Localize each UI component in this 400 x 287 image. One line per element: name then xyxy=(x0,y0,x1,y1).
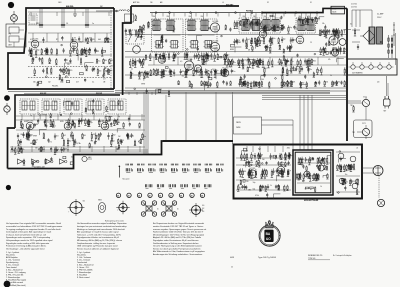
svg-text:302: 302 xyxy=(202,208,204,210)
svg-text:8k2: 8k2 xyxy=(200,77,203,79)
svg-text:MF-trimning: 460 kc (AM) og 10: MF-trimning: 460 kc (AM) og 10,7 Mc (FM)… xyxy=(77,239,123,242)
svg-text:100: 100 xyxy=(117,122,120,124)
svg-text:560: 560 xyxy=(261,79,264,81)
svg-text:5p: 5p xyxy=(279,46,281,48)
svg-text:560: 560 xyxy=(182,75,185,77)
svg-text:Messbedingungen: 220 V Netz, 5: Messbedingungen: 220 V Netz, 50 Hz, kein… xyxy=(153,233,205,236)
svg-text:220: 220 xyxy=(246,181,249,183)
svg-text:30: 30 xyxy=(157,209,159,211)
svg-text:8k2: 8k2 xyxy=(80,42,83,44)
svg-text:Aenderungen der Schaltung vorb: Aenderungen der Schaltung vorbehalten - … xyxy=(153,253,202,256)
svg-text:TR1: TR1 xyxy=(350,105,353,107)
svg-text:EF89: EF89 xyxy=(141,83,145,85)
svg-text:10,7Mc: 10,7Mc xyxy=(76,143,81,145)
svg-text:260: 260 xyxy=(167,16,170,18)
svg-text:304: 304 xyxy=(202,211,204,213)
svg-text:2M2: 2M2 xyxy=(313,60,316,62)
svg-text:54: 54 xyxy=(231,267,233,269)
svg-text:Roehrenvoltmeter 1100 Ohm/Volt: Roehrenvoltmeter 1100 Ohm/Volt. Toleranz… xyxy=(153,231,204,234)
svg-text:260: 260 xyxy=(201,16,204,18)
svg-text:00: 00 xyxy=(201,196,203,198)
svg-text:C2 4700: C2 4700 xyxy=(351,6,357,8)
svg-text:25: 25 xyxy=(111,66,113,68)
svg-text:50p: 50p xyxy=(253,182,256,184)
svg-text:2M2: 2M2 xyxy=(107,121,110,123)
svg-text:5p: 5p xyxy=(305,189,307,191)
svg-text:3n3: 3n3 xyxy=(240,171,243,173)
svg-text:5p: 5p xyxy=(289,170,291,172)
svg-text:10n: 10n xyxy=(345,174,348,176)
svg-text:4038: 4038 xyxy=(230,257,234,259)
svg-text:9. Nast normal: 9. Nast normal xyxy=(77,276,90,279)
svg-text:25: 25 xyxy=(71,157,73,159)
svg-text:1k: 1k xyxy=(132,136,134,138)
svg-text:EF89: EF89 xyxy=(60,121,64,123)
svg-text:ECC85: ECC85 xyxy=(298,35,304,37)
svg-text:0,1: 0,1 xyxy=(245,157,247,159)
svg-text:25u: 25u xyxy=(343,30,346,32)
svg-text:1n: 1n xyxy=(92,23,94,25)
svg-text:Ved reparation: Kun originale: Ved reparation: Kun originale B&O reserv… xyxy=(6,222,62,225)
svg-text:3n3: 3n3 xyxy=(54,101,57,103)
svg-text:260: 260 xyxy=(153,16,156,18)
svg-text:8k2: 8k2 xyxy=(63,135,66,137)
svg-text:8k2: 8k2 xyxy=(112,140,115,142)
svg-text:L4: L4 xyxy=(222,2,224,4)
svg-text:8k2: 8k2 xyxy=(208,71,211,73)
svg-text:0,1: 0,1 xyxy=(265,68,267,70)
svg-text:Alle spaendinger er maalt til: Alle spaendinger er maalt til chassis ud… xyxy=(77,231,119,234)
svg-text:OBS: elektrolytter og HT-kreds: OBS: elektrolytter og HT-kredse kan give… xyxy=(77,245,117,248)
svg-text:0,5: 0,5 xyxy=(30,39,32,41)
svg-text:5p: 5p xyxy=(132,73,134,75)
svg-text:350: 350 xyxy=(83,201,86,203)
svg-text:ECC85: ECC85 xyxy=(33,39,39,41)
svg-text:Tolerancer +/- 10% ved 220 V n: Tolerancer +/- 10% ved 220 V netspaendin… xyxy=(77,233,121,236)
svg-text:50p: 50p xyxy=(90,122,93,124)
svg-text:Service maa kun udfoeres af ud: Service maa kun udfoeres af uddannet fag… xyxy=(77,247,118,250)
svg-text:00: 00 xyxy=(117,196,119,198)
svg-text:R9: R9 xyxy=(69,126,71,128)
svg-text:3n3: 3n3 xyxy=(32,49,35,51)
svg-text:8k2: 8k2 xyxy=(239,187,242,189)
svg-text:0,1: 0,1 xyxy=(295,27,297,29)
svg-text:OC72: OC72 xyxy=(363,96,367,98)
svg-text:2k2: 2k2 xyxy=(118,136,121,138)
svg-text:25u: 25u xyxy=(233,71,236,73)
svg-text:220: 220 xyxy=(53,125,56,127)
svg-text:C1 4700: C1 4700 xyxy=(351,4,357,6)
svg-text:5603: 5603 xyxy=(36,23,40,25)
svg-text:47k: 47k xyxy=(338,82,341,84)
svg-text:EM84: EM84 xyxy=(98,200,102,202)
svg-text:300: 300 xyxy=(202,205,204,207)
svg-text:werden. Ersatzteile: FXD 507: werden. Ersatzteile: FXD 507 TB5 31 mit … xyxy=(153,225,204,228)
svg-text:5p: 5p xyxy=(66,60,68,62)
svg-text:AM-MF: AM-MF xyxy=(40,92,47,95)
svg-text:1k: 1k xyxy=(330,75,332,77)
svg-text:00: 00 xyxy=(170,196,172,198)
svg-text:2M2: 2M2 xyxy=(199,75,202,77)
svg-text:6k8: 6k8 xyxy=(98,39,101,41)
svg-text:220: 220 xyxy=(197,72,200,74)
svg-text:ECC85: ECC85 xyxy=(28,121,34,123)
svg-text:Ved maalinger - sluk altid for: Ved maalinger - sluk altid for apparatet… xyxy=(6,247,45,250)
svg-text:0,1 AMP: 0,1 AMP xyxy=(377,13,384,16)
svg-text:00: 00 xyxy=(180,196,182,198)
svg-text:Drehkondensator in Stellung ma: Drehkondensator in Stellung max. Kapazit… xyxy=(153,242,198,245)
svg-text:10n: 10n xyxy=(49,60,52,62)
svg-text:0,5: 0,5 xyxy=(180,61,182,63)
svg-text:AM-DEL: AM-DEL xyxy=(66,5,75,8)
svg-text:Ved forsendelse anvendes origi: Ved forsendelse anvendes original emball… xyxy=(77,222,127,225)
svg-text:47k: 47k xyxy=(328,59,331,61)
svg-text:50p: 50p xyxy=(289,27,292,29)
svg-text:Voltspaendinger maalet fra 135: Voltspaendinger maalet fra 1352 signallo… xyxy=(6,239,53,242)
svg-text:8k2: 8k2 xyxy=(69,141,72,143)
svg-text:AM-NET: AM-NET xyxy=(226,3,234,6)
svg-text:3n3: 3n3 xyxy=(56,136,59,138)
svg-text:680: 680 xyxy=(104,60,107,62)
svg-text:Bei Reparaturen duerfen nur Or: Bei Reparaturen duerfen nur Original-Ers… xyxy=(153,222,204,225)
svg-text:10n: 10n xyxy=(143,136,146,138)
svg-text:1k: 1k xyxy=(346,181,348,183)
svg-text:10n: 10n xyxy=(110,126,113,128)
svg-text:460kc: 460kc xyxy=(30,143,34,145)
svg-text:8k2: 8k2 xyxy=(287,61,290,63)
svg-text:EF89: EF89 xyxy=(21,134,25,136)
svg-text:560: 560 xyxy=(33,82,36,84)
svg-text:1k: 1k xyxy=(109,39,111,41)
svg-text:F2: F2 xyxy=(267,2,269,4)
svg-text:560: 560 xyxy=(83,135,86,137)
svg-text:Spaendinger under reparation:: Spaendinger under reparation: 220 V nets… xyxy=(6,236,50,239)
svg-text:Ve-D: Ve-D xyxy=(332,9,337,11)
svg-text:Signalgeber ueber Kunstantenne: Signalgeber ueber Kunstantenne 60 pF ans… xyxy=(153,239,199,242)
svg-text:5p: 5p xyxy=(320,35,322,37)
svg-text:25: 25 xyxy=(212,69,214,71)
svg-text:560: 560 xyxy=(138,62,141,64)
svg-text:C4: C4 xyxy=(348,164,350,166)
svg-text:2M2: 2M2 xyxy=(248,190,251,192)
svg-text:&O: &O xyxy=(266,237,271,241)
svg-text:R7: R7 xyxy=(56,39,58,41)
svg-text:1k: 1k xyxy=(60,149,62,151)
svg-text:1k: 1k xyxy=(270,185,272,187)
svg-text:TYPE 509: TYPE 509 xyxy=(308,258,315,260)
svg-text:0,1: 0,1 xyxy=(131,68,133,70)
svg-text:220: 220 xyxy=(352,181,355,183)
svg-text:25: 25 xyxy=(356,147,358,149)
svg-text:3n3: 3n3 xyxy=(99,71,102,73)
svg-text:C4: C4 xyxy=(66,23,68,25)
svg-text:50p: 50p xyxy=(165,71,168,73)
svg-text:nummer angeben. Spannungen geg: nummer angeben. Spannungen gegen Chassis… xyxy=(153,228,207,231)
svg-text:Abgleich ZF: 460 kc (AM) und 1: Abgleich ZF: 460 kc (AM) und 10,7 Mc (FM… xyxy=(153,236,201,239)
svg-text:Service nur durch geschultes F: Service nur durch geschultes Fachpersona… xyxy=(153,247,201,250)
svg-text:260: 260 xyxy=(150,2,153,4)
svg-text:50p: 50p xyxy=(283,39,286,41)
svg-text:Alle Widerstaende in Ohm, Kond: Alle Widerstaende in Ohm, Kondensatoren … xyxy=(153,250,205,253)
svg-text:8k2: 8k2 xyxy=(113,135,116,137)
svg-text:1k: 1k xyxy=(320,186,322,188)
svg-text:OC71: OC71 xyxy=(362,123,366,125)
svg-text:Signalstyrke under maaling af: Signalstyrke under maaling af FM: tilslu… xyxy=(6,242,50,245)
svg-text:0,1: 0,1 xyxy=(92,82,94,84)
svg-text:50p: 50p xyxy=(46,122,49,124)
svg-text:foretages kun paa autoriseret: foretages kun paa autoriseret vaerksted … xyxy=(77,225,127,228)
svg-text:ECC85: ECC85 xyxy=(66,121,72,123)
svg-text:FM-MF: FM-MF xyxy=(96,93,103,95)
svg-text:med originalt af den gulve. Al: med originalt af den gulve. Alle spaendi… xyxy=(6,231,52,234)
svg-text:25: 25 xyxy=(310,42,312,44)
svg-text:680: 680 xyxy=(82,120,85,122)
svg-text:3n3: 3n3 xyxy=(261,41,264,43)
svg-text:S2: S2 xyxy=(350,24,352,26)
svg-text:10n: 10n xyxy=(233,62,236,64)
svg-text:220: 220 xyxy=(377,82,380,84)
svg-text:ECC85: ECC85 xyxy=(213,21,219,23)
svg-text:680: 680 xyxy=(110,60,113,62)
svg-text:50p: 50p xyxy=(37,50,40,52)
svg-text:680: 680 xyxy=(244,171,247,173)
svg-text:10n: 10n xyxy=(96,50,99,52)
svg-text:260: 260 xyxy=(189,16,192,18)
svg-text:ECC85: ECC85 xyxy=(213,41,219,43)
svg-text:1k: 1k xyxy=(270,27,272,29)
svg-text:EF89: EF89 xyxy=(33,136,37,138)
svg-text:5p: 5p xyxy=(291,155,293,157)
svg-text:220p: 220p xyxy=(60,82,64,84)
svg-text:5p: 5p xyxy=(30,115,32,117)
svg-text:25u: 25u xyxy=(271,156,274,158)
svg-text:25u: 25u xyxy=(98,61,101,63)
svg-text:5p: 5p xyxy=(118,116,120,118)
svg-text:47k: 47k xyxy=(245,27,248,29)
svg-text:47k: 47k xyxy=(74,38,77,40)
svg-text:8k2: 8k2 xyxy=(247,39,250,41)
svg-text:9. Nast-Blok normal: 9. Nast-Blok normal xyxy=(6,281,24,284)
svg-text:00: 00 xyxy=(128,196,130,198)
svg-text:4036 HØJTTALER: 4036 HØJTTALER xyxy=(304,199,319,202)
svg-text:30: 30 xyxy=(177,209,179,211)
svg-text:Maalinger er foretaget med roe: Maalinger er foretaget med roervoltmeter… xyxy=(77,228,125,231)
svg-text:FM-DEL: FM-DEL xyxy=(52,86,58,88)
svg-text:5603: 5603 xyxy=(58,2,62,4)
svg-text:reservedele hos forhandleren:: reservedele hos forhandleren: FXD 507 TB… xyxy=(6,225,63,228)
svg-text:3n3: 3n3 xyxy=(326,82,329,84)
svg-text:4n7: 4n7 xyxy=(35,140,38,142)
svg-text:ECC85: ECC85 xyxy=(187,59,193,61)
svg-text:560: 560 xyxy=(35,147,38,149)
svg-text:25: 25 xyxy=(193,40,195,42)
svg-text:Te regning modtagelse se magas: Te regning modtagelse se magasinet konde… xyxy=(6,228,61,231)
svg-text:10k: 10k xyxy=(322,23,325,25)
svg-text:220: 220 xyxy=(92,39,95,41)
svg-text:R9: R9 xyxy=(278,62,280,64)
svg-text:47k: 47k xyxy=(293,82,296,84)
svg-text:2M2: 2M2 xyxy=(345,49,348,51)
svg-text:OMSK.: OMSK. xyxy=(236,127,241,129)
svg-text:5k6: 5k6 xyxy=(262,159,265,161)
svg-text:3n3: 3n3 xyxy=(243,60,246,62)
svg-text:Type 509 Tg 54034: Type 509 Tg 54034 xyxy=(258,257,277,259)
svg-text:5p: 5p xyxy=(165,54,167,56)
svg-text:FM1: FM1 xyxy=(152,25,155,27)
svg-text:2M2: 2M2 xyxy=(287,148,290,150)
svg-text:ECC85: ECC85 xyxy=(250,168,256,170)
svg-text:50: 50 xyxy=(284,155,286,157)
svg-text:Vorsicht: Hochspannung an den: Vorsicht: Hochspannung an den Elektrolyt… xyxy=(153,245,202,248)
svg-text:1n: 1n xyxy=(155,44,157,46)
svg-text:00: 00 xyxy=(159,196,161,198)
svg-text:5403: 5403 xyxy=(332,12,336,14)
svg-text:220: 220 xyxy=(70,70,73,72)
svg-text:Frekvenser til trimning af AM-: Frekvenser til trimning af AM-omraadet: … xyxy=(6,245,46,248)
svg-text:BA: BA xyxy=(266,232,271,236)
svg-text:Signalgenerator tilsluttes via: Signalgenerator tilsluttes via kunstante… xyxy=(77,236,120,239)
svg-text:Drejekondensator i stilling fo: Drejekondensator i stilling for max. kap… xyxy=(77,242,115,245)
svg-text:NET: NET xyxy=(384,111,387,113)
svg-text:2M2: 2M2 xyxy=(279,173,282,175)
svg-text:4n7: 4n7 xyxy=(76,82,79,84)
svg-text:10n: 10n xyxy=(273,38,276,40)
svg-text:47k: 47k xyxy=(49,142,52,144)
svg-text:00: 00 xyxy=(149,196,151,198)
svg-text:5p: 5p xyxy=(282,162,284,164)
svg-text:S1: S1 xyxy=(310,2,312,4)
svg-text:47k: 47k xyxy=(93,134,96,136)
svg-text:47k: 47k xyxy=(67,150,70,152)
svg-text:10n: 10n xyxy=(245,23,248,25)
svg-text:470k: 470k xyxy=(255,195,259,197)
svg-text:4n7: 4n7 xyxy=(103,78,106,80)
svg-text:1k2: 1k2 xyxy=(48,82,51,84)
svg-text:3n: 3n xyxy=(310,69,312,71)
svg-text:FM2: FM2 xyxy=(187,25,190,27)
svg-text:00: 00 xyxy=(191,196,193,198)
svg-text:TR2: TR2 xyxy=(352,132,355,134)
svg-text:EF89: EF89 xyxy=(230,49,234,51)
svg-text:C4: C4 xyxy=(155,75,157,77)
svg-text:220k: 220k xyxy=(210,59,214,61)
svg-text:EF85: EF85 xyxy=(24,121,28,123)
svg-text:10n: 10n xyxy=(157,54,160,56)
svg-text:680: 680 xyxy=(182,71,185,73)
svg-text:til chassis med roervoltmeter: til chassis med roervoltmeter 1100 ohm p… xyxy=(6,233,46,236)
svg-text:2M2: 2M2 xyxy=(140,72,143,74)
svg-text:00: 00 xyxy=(138,196,140,198)
svg-text:50p: 50p xyxy=(253,189,256,191)
svg-text:5p: 5p xyxy=(192,44,194,46)
svg-text:220: 220 xyxy=(67,64,70,66)
svg-text:R9: R9 xyxy=(300,163,302,165)
svg-text:50: 50 xyxy=(160,75,162,77)
svg-text:2M2: 2M2 xyxy=(238,42,241,44)
